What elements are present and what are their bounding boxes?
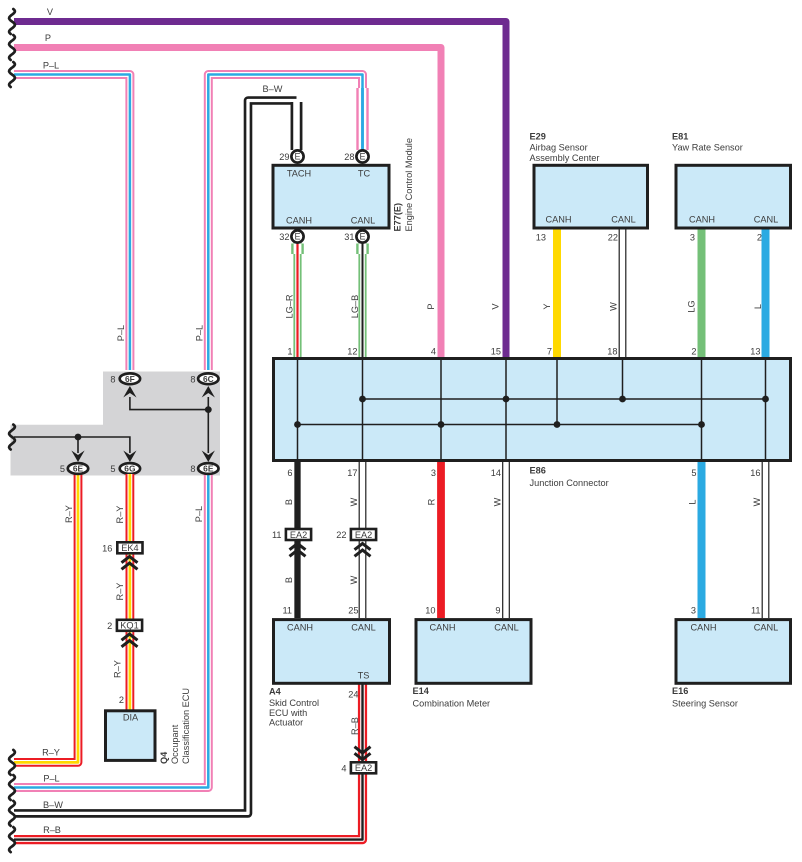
wire P-L from 6C to E77 pin 28 bbox=[208, 75, 362, 371]
wire W E29 CANL to junction pin 18 bbox=[619, 230, 627, 359]
svg-text:11: 11 bbox=[282, 606, 292, 616]
svg-text:Occupant: Occupant bbox=[170, 724, 180, 764]
wire W junction pin 14 to E14 CANL bbox=[502, 462, 510, 618]
svg-text:Skid Control: Skid Control bbox=[269, 698, 319, 708]
ECU box E77 Engine Control Module bbox=[273, 165, 389, 228]
junction dot upper 18 bbox=[619, 396, 626, 403]
wire R-Y KQ1 to DIA bbox=[125, 632, 134, 710]
chevron on R-B wire bbox=[355, 753, 371, 759]
svg-text:LG–B: LG–B bbox=[350, 295, 360, 319]
junction dot lower 1 bbox=[294, 421, 301, 428]
svg-text:3: 3 bbox=[431, 468, 436, 478]
svg-text:32: 32 bbox=[279, 232, 289, 242]
svg-text:CANH: CANH bbox=[690, 623, 716, 633]
bus wire P bbox=[14, 48, 441, 359]
junction dot 6C branch bbox=[205, 406, 212, 413]
svg-text:W: W bbox=[752, 497, 762, 506]
bus wire P-L bottom to 6E right bbox=[14, 474, 208, 788]
connector 6F bbox=[120, 373, 140, 384]
svg-text:E: E bbox=[294, 232, 300, 242]
svg-text:CANH: CANH bbox=[286, 216, 312, 226]
svg-text:5: 5 bbox=[110, 464, 115, 474]
junction upper bus wire bbox=[363, 398, 766, 400]
wire LG E81 CANH to junction pin 2 bbox=[698, 230, 706, 359]
wire B junction pin 6 to A4 CANH bbox=[294, 462, 300, 618]
svg-text:LG–R: LG–R bbox=[285, 294, 295, 318]
arrow into 6E left bbox=[71, 451, 84, 463]
junction dot lower 4 bbox=[438, 421, 445, 428]
wire LG-B pin31 to junction pin 12 bbox=[358, 243, 366, 358]
junction dot upper 12 bbox=[359, 396, 366, 403]
gray harness shade bbox=[11, 372, 221, 476]
continuation squiggle P-L bbox=[9, 62, 15, 87]
wire W junction pin 17 to A4 CANL bbox=[359, 462, 367, 618]
svg-text:6F: 6F bbox=[125, 374, 135, 384]
svg-text:EA2: EA2 bbox=[355, 763, 372, 773]
svg-text:25: 25 bbox=[348, 606, 358, 616]
svg-text:EK4: EK4 bbox=[121, 543, 138, 553]
svg-text:CANH: CANH bbox=[689, 215, 715, 225]
svg-text:E14: E14 bbox=[413, 686, 430, 696]
svg-text:W: W bbox=[609, 302, 619, 311]
svg-text:31: 31 bbox=[344, 232, 354, 242]
connector 6G bbox=[120, 463, 140, 474]
connector 6C bbox=[198, 373, 218, 384]
wire B-W bbox=[14, 101, 297, 814]
connector EK4 bbox=[117, 542, 142, 553]
junction dot above 6E bbox=[75, 434, 82, 441]
connector 6E left bbox=[68, 463, 88, 474]
svg-text:5: 5 bbox=[691, 468, 696, 478]
svg-text:TC: TC bbox=[358, 169, 371, 179]
svg-text:6G: 6G bbox=[124, 464, 135, 474]
svg-text:10: 10 bbox=[425, 606, 435, 616]
svg-text:E16: E16 bbox=[672, 686, 688, 696]
svg-text:17: 17 bbox=[347, 468, 357, 478]
svg-text:E77(E): E77(E) bbox=[393, 203, 403, 232]
svg-text:24: 24 bbox=[348, 690, 358, 700]
svg-text:2: 2 bbox=[691, 347, 696, 357]
svg-text:CANH: CANH bbox=[429, 623, 455, 633]
svg-text:Assembly Center: Assembly Center bbox=[530, 153, 600, 163]
svg-text:V: V bbox=[47, 7, 54, 17]
wire L junction pin 5 to E16 CANH bbox=[698, 462, 706, 618]
svg-text:CANL: CANL bbox=[754, 215, 779, 225]
svg-text:6E: 6E bbox=[73, 464, 84, 474]
svg-text:CANL: CANL bbox=[494, 623, 519, 633]
svg-text:11: 11 bbox=[272, 530, 282, 540]
svg-text:B: B bbox=[284, 577, 294, 583]
svg-text:Steering Sensor: Steering Sensor bbox=[672, 699, 738, 709]
svg-text:29: 29 bbox=[279, 152, 289, 162]
wire horizontal to 6G bbox=[14, 437, 130, 453]
svg-text:2: 2 bbox=[119, 695, 124, 705]
chevron below EA2-11 bbox=[290, 544, 306, 550]
svg-text:22: 22 bbox=[336, 530, 346, 540]
svg-text:Q4: Q4 bbox=[159, 751, 169, 764]
svg-text:3: 3 bbox=[691, 606, 696, 616]
svg-text:E86: E86 bbox=[530, 465, 546, 475]
continuation squiggle B-W bbox=[9, 801, 15, 826]
connector 6E right bbox=[198, 463, 218, 474]
junction lower bus wire bbox=[298, 424, 702, 426]
svg-text:Airbag Sensor: Airbag Sensor bbox=[530, 142, 588, 152]
svg-text:R–B: R–B bbox=[350, 717, 360, 735]
svg-text:EA2: EA2 bbox=[290, 530, 307, 540]
svg-text:6: 6 bbox=[287, 468, 292, 478]
arrow into 6E right bbox=[202, 451, 215, 463]
svg-text:8: 8 bbox=[190, 374, 195, 384]
svg-text:Engine Control Module: Engine Control Module bbox=[404, 138, 414, 231]
wire 6C to 6E right bbox=[207, 397, 209, 453]
arrow into 6C bbox=[202, 386, 215, 398]
bus wire V bbox=[14, 22, 506, 359]
junction connector box E86 bbox=[274, 359, 791, 461]
chevron below EA2-22 bbox=[355, 544, 371, 550]
svg-text:P: P bbox=[45, 33, 51, 43]
svg-text:R–Y: R–Y bbox=[113, 660, 123, 678]
connector EA2 pin 22 bbox=[351, 529, 376, 540]
sensor box E81 Yaw Rate Sensor bbox=[676, 165, 791, 228]
svg-text:P–L: P–L bbox=[43, 773, 59, 783]
pin circle 32 bbox=[291, 230, 303, 242]
svg-text:4: 4 bbox=[431, 347, 436, 357]
svg-text:W: W bbox=[349, 575, 359, 584]
svg-text:22: 22 bbox=[608, 233, 618, 243]
svg-text:E: E bbox=[294, 152, 300, 162]
svg-text:W: W bbox=[349, 497, 359, 506]
connector EA2 pin 4 bbox=[351, 762, 376, 773]
wire W junction pin 16 to E16 CANL bbox=[762, 462, 770, 618]
svg-text:8: 8 bbox=[190, 464, 195, 474]
svg-text:CANL: CANL bbox=[754, 623, 779, 633]
svg-text:R–Y: R–Y bbox=[115, 506, 125, 524]
svg-text:R–Y: R–Y bbox=[115, 583, 125, 601]
svg-text:6E: 6E bbox=[203, 464, 214, 474]
svg-text:B–W: B–W bbox=[263, 84, 283, 94]
svg-text:P: P bbox=[426, 303, 436, 309]
svg-text:P–L: P–L bbox=[194, 325, 204, 341]
svg-text:R–Y: R–Y bbox=[64, 505, 74, 523]
wire R junction pin 3 to E14 CANH bbox=[437, 462, 445, 618]
junction dot upper 13 bbox=[762, 396, 769, 403]
wire R-Y EK4 to KQ1 bbox=[125, 554, 134, 619]
continuation squiggle R-B bbox=[9, 827, 15, 852]
svg-text:E: E bbox=[359, 152, 365, 162]
svg-text:1: 1 bbox=[287, 347, 292, 357]
continuation squiggle P bbox=[9, 35, 15, 60]
wire L E81 CANL to junction pin 13 bbox=[762, 230, 770, 359]
svg-text:CANL: CANL bbox=[611, 215, 636, 225]
svg-text:E: E bbox=[359, 232, 365, 242]
pin circle 28 bbox=[356, 150, 368, 162]
svg-text:L: L bbox=[688, 499, 698, 504]
svg-text:B: B bbox=[284, 499, 294, 505]
svg-text:11: 11 bbox=[751, 606, 761, 616]
svg-text:18: 18 bbox=[607, 347, 617, 357]
bus wire R-B bbox=[14, 684, 363, 840]
svg-text:16: 16 bbox=[750, 468, 760, 478]
svg-text:8: 8 bbox=[110, 374, 115, 384]
svg-text:ECU with: ECU with bbox=[269, 708, 307, 718]
svg-text:TACH: TACH bbox=[287, 169, 311, 179]
svg-text:CANL: CANL bbox=[351, 216, 376, 226]
bus wire R-Y to 6E bbox=[14, 474, 78, 762]
ECU box Q4 DIA bbox=[106, 711, 156, 761]
svg-text:R: R bbox=[427, 498, 437, 505]
continuation squiggle P-L bottom bbox=[9, 775, 15, 800]
arrow into 6F bbox=[123, 386, 136, 398]
svg-text:KQ1: KQ1 bbox=[120, 621, 138, 631]
chevron below EK4 bbox=[122, 557, 138, 563]
wire LG-R pin32 to junction pin 1 bbox=[293, 243, 301, 358]
chevron below KQ1 bbox=[122, 634, 138, 640]
continuation squiggle gray wire bbox=[9, 425, 15, 450]
connector KQ1 bbox=[117, 620, 142, 631]
wire Y E29 CANH to junction pin 7 bbox=[553, 230, 561, 359]
svg-text:Combination Meter: Combination Meter bbox=[413, 699, 491, 709]
svg-text:13: 13 bbox=[750, 347, 760, 357]
svg-text:CANH: CANH bbox=[545, 215, 571, 225]
ECU box A4 Skid Control bbox=[274, 620, 390, 684]
continuation squiggle R-Y bbox=[9, 750, 15, 775]
svg-text:V: V bbox=[491, 303, 501, 310]
svg-text:E81: E81 bbox=[672, 132, 688, 142]
sensor box E29 Airbag Sensor Assembly Center bbox=[534, 165, 648, 228]
svg-text:7: 7 bbox=[547, 347, 552, 357]
svg-text:6C: 6C bbox=[203, 374, 214, 384]
arrow into 6G bbox=[123, 451, 136, 463]
connector EA2 pin 11 bbox=[286, 529, 311, 540]
svg-text:R–Y: R–Y bbox=[42, 748, 60, 758]
svg-text:R–B: R–B bbox=[43, 825, 61, 835]
junction internal pin wires bbox=[297, 360, 299, 459]
svg-text:Classification ECU: Classification ECU bbox=[181, 688, 191, 764]
svg-text:13: 13 bbox=[536, 233, 546, 243]
junction dot lower 2 bbox=[698, 421, 705, 428]
svg-text:Junction Connector: Junction Connector bbox=[530, 478, 609, 488]
wire branch down to 6E bbox=[77, 437, 79, 453]
svg-text:P–L: P–L bbox=[116, 325, 126, 341]
svg-text:P–L: P–L bbox=[43, 60, 59, 70]
svg-text:CANL: CANL bbox=[351, 623, 376, 633]
svg-text:A4: A4 bbox=[269, 687, 282, 697]
svg-text:DIA: DIA bbox=[123, 713, 139, 723]
sensor box E16 Steering Sensor bbox=[676, 620, 791, 684]
svg-text:B–W: B–W bbox=[43, 800, 63, 810]
svg-text:Actuator: Actuator bbox=[269, 718, 303, 728]
svg-text:Yaw Rate Sensor: Yaw Rate Sensor bbox=[672, 143, 743, 153]
svg-text:14: 14 bbox=[491, 468, 501, 478]
svg-text:LG: LG bbox=[687, 300, 697, 312]
svg-text:15: 15 bbox=[491, 347, 501, 357]
svg-text:12: 12 bbox=[347, 347, 357, 357]
svg-text:W: W bbox=[493, 497, 503, 506]
wire 6F branch bbox=[130, 397, 209, 410]
svg-text:5: 5 bbox=[60, 464, 65, 474]
svg-text:EA2: EA2 bbox=[355, 530, 372, 540]
svg-text:2: 2 bbox=[757, 233, 762, 243]
svg-text:E29: E29 bbox=[530, 132, 546, 142]
svg-text:3: 3 bbox=[690, 233, 695, 243]
wire R-Y 6G to EK4 bbox=[125, 474, 134, 541]
junction dot lower 7 bbox=[554, 421, 561, 428]
continuation squiggle V bbox=[9, 9, 15, 34]
svg-text:2: 2 bbox=[107, 621, 112, 631]
svg-text:9: 9 bbox=[495, 606, 500, 616]
svg-text:16: 16 bbox=[102, 543, 112, 553]
meter box E14 Combination Meter bbox=[416, 620, 531, 684]
svg-text:TS: TS bbox=[358, 671, 370, 681]
svg-text:P–L: P–L bbox=[194, 506, 204, 522]
bus wire P-L left segment to 6F bbox=[14, 75, 130, 371]
svg-text:4: 4 bbox=[341, 763, 346, 773]
svg-text:L: L bbox=[753, 304, 763, 309]
svg-text:28: 28 bbox=[344, 152, 354, 162]
pin circle 29 bbox=[291, 150, 303, 162]
svg-text:CANH: CANH bbox=[287, 623, 313, 633]
pin circle 31 bbox=[356, 230, 368, 242]
svg-text:Y: Y bbox=[542, 303, 552, 309]
junction dot upper 15 bbox=[503, 396, 510, 403]
